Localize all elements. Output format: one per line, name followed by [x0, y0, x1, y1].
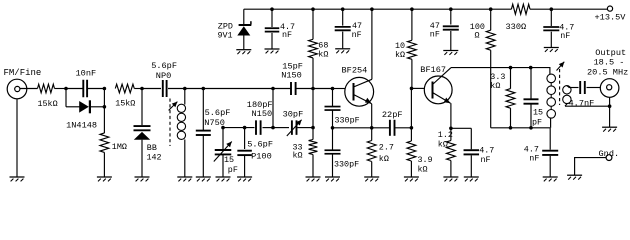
ground under R9 [404, 177, 419, 181]
node J junction [331, 87, 335, 91]
wire rail to C19 [450, 9, 452, 24]
wire node I to node J [313, 88, 333, 90]
trimmer C4 15pF [214, 142, 232, 162]
wire base line to Q2 [412, 87, 425, 89]
ground under J2 [602, 127, 617, 131]
wire node I2 to R6 [312, 128, 314, 140]
connector J2 output BNC [600, 79, 619, 98]
wire main node F to C7 [273, 88, 291, 90]
ground under C17 [265, 49, 280, 53]
wire J2 shell down [609, 97, 611, 127]
capacitor C1 10nF [83, 80, 87, 98]
capacitor C13 4.7nF emitter bypass [464, 150, 480, 154]
wire node C down to D2 [141, 89, 143, 126]
svg-text:330Ω: 330Ω [506, 22, 527, 32]
label 1.2 kOhm [438, 130, 453, 150]
ground under D2 [135, 177, 150, 181]
svg-text:5.6pF: 5.6pF [205, 108, 231, 118]
resistor R3 1M [100, 133, 109, 153]
inductor L1 adjustable [177, 89, 185, 178]
wire C20 to ground [550, 32, 552, 47]
wire node A to C1 [66, 88, 83, 90]
wire osc line left [223, 127, 255, 129]
trimmer C8 30pF [287, 120, 302, 136]
svg-text:kΩ: kΩ [318, 49, 328, 59]
wire node B2 up to node B [103, 89, 105, 107]
wire Q1 collector up [371, 9, 373, 79]
wire node F down [272, 89, 274, 128]
wire node L to C11 [372, 127, 390, 129]
node T junction zener [270, 7, 274, 11]
capacitor C14 15pF [524, 99, 539, 103]
svg-text:2.7: 2.7 [379, 142, 394, 152]
ground under R11 [443, 177, 458, 181]
label 5.6pF P100 [247, 140, 273, 162]
arrow T1 tuning [557, 62, 565, 71]
label 4.7 nF C16 [524, 145, 540, 164]
node G junction trimmer tap [221, 126, 225, 130]
svg-text:BF254: BF254 [342, 65, 368, 75]
svg-text:nF: nF [430, 30, 440, 40]
node I2 junction [311, 126, 315, 130]
node E junction [202, 87, 206, 91]
wire node B down to R3 [103, 107, 105, 133]
label BF167 [420, 65, 446, 75]
wire 3.3k top lead [510, 68, 512, 89]
node B2 junction [103, 105, 107, 109]
label 100 Ohm [470, 22, 485, 40]
wire D2 to ground [141, 140, 143, 177]
node D junction [183, 87, 187, 91]
wire node H down to C5 [244, 128, 246, 149]
wire R11 to ground [450, 161, 452, 178]
capacitor C11 22pF [390, 120, 395, 136]
svg-text:9V1: 9V1 [218, 31, 233, 41]
ground under C5 [237, 177, 252, 181]
wire 15pF bottom lead [530, 105, 532, 128]
svg-text:kΩ: kΩ [395, 50, 405, 60]
capacitor C10 330pF [325, 150, 341, 154]
label FM/Fine [4, 68, 42, 78]
label 68 kOhm [318, 41, 328, 60]
resistor R14 330 series [511, 4, 530, 14]
wire node M down to R9 [410, 128, 412, 141]
core L1 dashed [169, 99, 171, 147]
label 330 Ohm [506, 22, 527, 32]
wire J1 pin to R1 [20, 88, 38, 90]
wire main node E to node F [203, 88, 273, 90]
ground under C10 [325, 177, 340, 181]
terminal +13.5V [607, 6, 612, 11]
label 33 kOhm [293, 143, 303, 161]
wire C17 to ground [271, 33, 273, 49]
svg-text:P100: P100 [251, 151, 272, 161]
node F junction [271, 87, 275, 91]
node B junction [103, 87, 107, 91]
svg-text:10nF: 10nF [76, 69, 97, 79]
ground under R6 [306, 177, 321, 181]
varicap D2 BB142 [134, 126, 151, 140]
wire node P down to R11 [450, 128, 452, 140]
wire main node C to C2 [142, 88, 161, 90]
svg-text:N150: N150 [252, 109, 273, 119]
label BF254 [342, 65, 368, 75]
wire J1 shell down [16, 99, 18, 177]
node L junction emitter [370, 126, 374, 130]
resistor R8 10k [408, 40, 417, 59]
svg-text:kΩ: kΩ [418, 165, 428, 175]
svg-text:3.9: 3.9 [418, 155, 433, 165]
transformer T1 secondary [563, 86, 571, 107]
ground under Gnd terminal [567, 175, 582, 179]
svg-text:BF167: BF167 [420, 65, 446, 75]
resistor R12 100 [486, 30, 495, 50]
node H junction [243, 126, 247, 130]
wire C19 to ground [450, 31, 452, 50]
label 15 pF C14 [532, 108, 543, 128]
ground under J1 [10, 177, 25, 181]
resistor R5 68k [309, 39, 318, 58]
wire C2 to node D [168, 88, 185, 90]
arrow L1 tuning [169, 102, 178, 111]
wire C11 to node M [395, 127, 412, 129]
svg-text:1.2: 1.2 [438, 130, 453, 140]
svg-text:nF: nF [481, 155, 491, 165]
node A junction [64, 87, 68, 91]
node R junction 15pF top [529, 66, 533, 70]
capacitor C7 15pF N150 [291, 82, 296, 95]
node U junction 68k [311, 7, 315, 11]
svg-text:kΩ: kΩ [293, 151, 303, 161]
wire supply rail left [244, 8, 512, 10]
node S junction output ground [608, 104, 612, 108]
node N junction base BF167 [410, 87, 414, 91]
wire rail to C18 [342, 9, 344, 25]
node R2b junction 15pF bottom [529, 126, 533, 130]
wire rail to C20 [550, 9, 552, 26]
ground under C4 [216, 177, 231, 181]
svg-text:Ω: Ω [475, 30, 480, 40]
wire node I to node I2 [312, 89, 314, 128]
wire C9 to node K [332, 111, 334, 128]
svg-text:1MΩ: 1MΩ [112, 142, 127, 152]
node P junction emitter Q2 [449, 127, 453, 131]
label 1N4148 [66, 120, 97, 130]
label 10 kOhm [395, 41, 405, 60]
svg-text:pF: pF [532, 118, 542, 128]
zener D3 ZPD 9V1 [237, 9, 251, 49]
wire tank top line [451, 68, 550, 75]
svg-text:22pF: 22pF [382, 110, 403, 120]
label 4.7nF C15 [569, 99, 595, 109]
svg-text:15kΩ: 15kΩ [115, 99, 135, 109]
wire R5 to node I [312, 58, 314, 89]
diode D1 1N4148 [79, 100, 90, 113]
capacitor C20 4.7nF [543, 27, 559, 30]
label 4.7 nF C17 [280, 22, 295, 40]
wire C9b link [332, 128, 334, 150]
svg-text:4.7nF: 4.7nF [569, 99, 595, 109]
ground under C19 [443, 51, 458, 55]
label 330pF C9 [335, 116, 360, 126]
wire supply rail right [530, 8, 607, 10]
label 1M R3 [112, 142, 127, 152]
svg-text:4.7: 4.7 [479, 145, 494, 155]
label 4.7 nF C20 [559, 22, 574, 41]
capacitor C19 47nF [443, 26, 459, 29]
node Y junction C19 [449, 7, 453, 11]
node W junction Q1 collector [370, 7, 374, 11]
core T1 dashed [559, 69, 561, 105]
wire C5 to ground [244, 156, 246, 177]
ground under R7 [364, 177, 379, 181]
node K junction [331, 126, 335, 130]
wire C7 to node I [296, 88, 314, 90]
label 5.6pF NP0 [151, 61, 177, 81]
wire C16 to ground [549, 156, 551, 177]
node X junction 10k [410, 7, 414, 11]
transformer T1 primary [547, 74, 556, 128]
node F2 junction [271, 126, 275, 130]
svg-text:330pF: 330pF [335, 116, 360, 126]
svg-text:18.5 -: 18.5 - [594, 57, 625, 67]
label 47 nF C18 [352, 21, 362, 40]
svg-text:20.5 MHz: 20.5 MHz [587, 67, 628, 77]
label 330pF C10 [334, 160, 359, 170]
wire C8 to node I2 [298, 127, 314, 129]
resistor R7 2.7k [367, 141, 376, 162]
capacitor C6 180pF N150 [256, 120, 261, 135]
label Output 18.5 - 20.5 MHz [587, 48, 628, 77]
resistor R2 15k [115, 84, 134, 93]
svg-text:nF: nF [352, 30, 362, 40]
node V junction C18 [341, 7, 345, 11]
resistor R1 15k [38, 84, 55, 93]
label 180pF N150 [247, 100, 273, 119]
capacitor C2 5.6pF NP0 [163, 80, 167, 97]
transistor Q2 BF167 [424, 68, 452, 104]
svg-text:kΩ: kΩ [379, 154, 389, 164]
svg-text:5.6pF: 5.6pF [247, 140, 273, 150]
terminal Gnd [606, 155, 612, 161]
svg-text:15: 15 [224, 155, 234, 165]
wire C1 to node B [87, 88, 104, 90]
wire Gnd terminal [575, 158, 607, 175]
svg-text:kΩ: kΩ [438, 140, 448, 150]
wire node L down to R7 [371, 128, 373, 141]
svg-text:1N4148: 1N4148 [66, 120, 97, 130]
wire R9 to ground [410, 161, 412, 177]
wire C13 lead [470, 128, 472, 149]
svg-text:kΩ: kΩ [490, 81, 500, 91]
capacitor C5 5.6pF P100 [237, 151, 252, 155]
wire rail to R8 [411, 9, 413, 40]
label 10nF [76, 69, 97, 79]
wire Q2 emitter down [450, 103, 452, 128]
node Q2b junction 3.3k bottom [509, 126, 513, 130]
svg-text:5.6pF: 5.6pF [151, 61, 177, 71]
wire R1 to node A [55, 88, 67, 90]
node C junction [140, 87, 144, 91]
svg-text:30pF: 30pF [283, 110, 304, 120]
wire diode branch left [66, 106, 80, 108]
resistor R11 1.2k [447, 141, 456, 161]
wire C3 to ground [202, 135, 204, 177]
node Z junction 100 [489, 7, 493, 11]
svg-text:NP0: NP0 [156, 71, 171, 81]
wire C18 to ground [342, 32, 344, 49]
wire node N to node M [410, 88, 412, 127]
label 15k R2 [115, 99, 135, 109]
label 3.9 kOhm [418, 155, 433, 175]
transistor Q1 BF254 [345, 77, 374, 106]
resistor R13 3.3k [506, 89, 515, 109]
label 15pF N150 C7 [281, 61, 303, 80]
resistor R9 3.9k [407, 141, 416, 161]
capacitor C3 5.6pF N750 [196, 131, 211, 135]
wire osc line 30pF left [273, 127, 289, 129]
node M junction [410, 126, 414, 130]
capacitor C18 47nF [335, 27, 351, 30]
label 2.7 kOhm [379, 142, 394, 164]
wire R7 to ground [371, 162, 373, 177]
svg-text:142: 142 [147, 153, 162, 163]
wire C10 to ground [332, 155, 334, 178]
wire R2 to node C [134, 88, 142, 90]
capacitor C17 4.7nF rail [265, 28, 280, 31]
svg-text:15: 15 [533, 108, 543, 118]
wire diode to node B2 [90, 106, 105, 108]
svg-text:pF: pF [228, 165, 238, 175]
wire secondary bottom line [565, 105, 610, 107]
wire node G down to C4 [222, 128, 224, 149]
ground under R3 [97, 177, 112, 181]
svg-text:15kΩ: 15kΩ [38, 99, 58, 109]
capacitor C16 4.7nF tank [542, 151, 558, 155]
label 3.3 kOhm [490, 72, 505, 91]
wire rail to R12 100 [490, 9, 492, 30]
connector J1 FM/Fine input BNC [7, 79, 27, 99]
svg-text:nF: nF [560, 31, 570, 41]
wire node J down to C9 [332, 89, 334, 107]
label 47 nF C19 [430, 21, 440, 40]
wire C6 to node F2 [263, 127, 274, 129]
wire R3 to ground [103, 152, 105, 177]
wire R12 down crossover to tank bottom [490, 50, 492, 128]
label 22pF [382, 110, 403, 120]
node Q junction 3.3k top [509, 66, 513, 70]
wire C15 to J2 [587, 87, 601, 89]
wire Q2 collector to corner [449, 67, 451, 70]
wire tank bottom line [491, 127, 551, 129]
svg-text:N150: N150 [281, 70, 302, 80]
node I junction [311, 87, 315, 91]
wire R6 to ground [312, 155, 314, 178]
wire node K to node L [333, 127, 372, 129]
ground under C3 [196, 177, 211, 181]
node AA junction C20 [550, 7, 554, 11]
label 30pF [283, 110, 304, 120]
label 5.6pF N750 [204, 108, 230, 128]
wire C13 to ground [470, 155, 472, 177]
ground under C13 [464, 177, 479, 181]
label 15k R1 [38, 99, 58, 109]
wire tank bottom corner down [549, 128, 551, 150]
label 15 pF C4 [224, 155, 238, 175]
ground under C20 [544, 48, 559, 52]
capacitor C9 330pF [325, 107, 341, 111]
ground under D3 [236, 50, 251, 54]
resistor R6 33k [309, 140, 318, 155]
svg-text:nF: nF [282, 30, 292, 40]
wire 15pF top lead [530, 68, 532, 99]
capacitor C15 4.7nF output [580, 81, 585, 94]
wire C4 to ground [222, 155, 224, 177]
wire 3.3k bottom lead [510, 108, 512, 128]
wire node P to C13 [451, 127, 471, 129]
label +13.5V [595, 13, 627, 23]
wire base line to Q1 [333, 88, 346, 90]
ground under C16 [543, 177, 558, 181]
wire secondary top to C15 [569, 87, 579, 89]
wire node A down [65, 89, 67, 107]
wire node E down to C3 [202, 89, 204, 131]
svg-text:FM/Fine: FM/Fine [4, 68, 42, 78]
wire node D to node E [185, 88, 204, 90]
label Gnd. [599, 149, 620, 159]
svg-text:+13.5V: +13.5V [595, 13, 627, 23]
svg-text:330pF: 330pF [334, 160, 359, 170]
wire rail to R5 [312, 9, 314, 39]
wire rail to C17 [271, 9, 273, 27]
wire Q1 emitter down [371, 104, 373, 128]
svg-text:nF: nF [529, 154, 539, 164]
wire R8 to node N [411, 59, 413, 88]
label ZPD 9V1 [218, 22, 233, 41]
label BB 142 [147, 143, 162, 162]
ground under C18 [335, 49, 350, 53]
label 4.7 nF C13 [479, 145, 494, 165]
ground under L1 [177, 177, 192, 181]
